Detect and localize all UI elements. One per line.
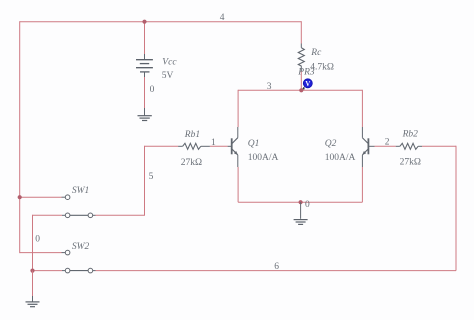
- node 1 label: [211, 138, 216, 148]
- svg-text:0: 0: [150, 85, 155, 95]
- wire emitter rail net 0: [238, 201, 362, 203]
- wire net 6 right rail vertical: [455, 146, 457, 271]
- wire net 5 horizontal to Rb1: [145, 145, 179, 147]
- wire Rb2 right lead to net 6: [418, 145, 456, 147]
- node 6 label: [274, 262, 279, 272]
- node 3 label: [267, 82, 272, 92]
- label 4.7kΩ: [310, 63, 334, 73]
- wire net 4 left rail vertical: [19, 21, 21, 253]
- transistor Q2: [362, 138, 368, 155]
- resistor Rc: [298, 48, 304, 66]
- wire net 4 to SW1 top throw: [20, 196, 66, 198]
- wire net 5 vertical: [144, 146, 146, 216]
- wire battery negative to ground, net 0: [144, 72, 146, 116]
- svg-text:5: 5: [149, 172, 154, 182]
- svg-text:SW1: SW1: [72, 186, 89, 196]
- label SW1: [72, 186, 89, 196]
- wire Q2 collector vertical: [361, 90, 363, 138]
- ground (center): [294, 220, 308, 225]
- wire ground stub (center): [300, 202, 302, 219]
- svg-text:3: 3: [267, 82, 272, 92]
- svg-text:100A/A: 100A/A: [248, 153, 279, 163]
- wire battery top lead: [144, 22, 146, 60]
- wire Rc bottom lead: [300, 66, 302, 91]
- ground (left): [26, 302, 40, 307]
- switch SW2: [65, 250, 92, 273]
- label 100A/A (Q2): [325, 153, 356, 163]
- wire SW2 bottom throw to ground rail: [33, 270, 66, 272]
- label SW2: [72, 242, 90, 252]
- wire net 4 top horizontal: [20, 21, 302, 23]
- wire net 6 bottom horizontal: [93, 270, 456, 272]
- node 0 label (battery): [150, 85, 155, 95]
- svg-text:V: V: [305, 81, 310, 88]
- switch SW1: [65, 195, 92, 218]
- wire Q2 emitter vertical: [361, 155, 363, 202]
- label Rb1: [184, 130, 200, 140]
- svg-text:27kΩ: 27kΩ: [181, 158, 202, 168]
- junction ground rail at SW2: [30, 269, 34, 273]
- svg-text:2: 2: [385, 138, 390, 148]
- wire net 2 Q2 base to Rb2: [369, 145, 400, 147]
- ground (battery): [138, 116, 152, 121]
- label PR3: [297, 68, 315, 78]
- wire Q1 emitter vertical: [237, 155, 239, 202]
- node 0 label (switch rail): [35, 234, 40, 244]
- svg-text:4: 4: [220, 13, 225, 23]
- svg-text:0: 0: [305, 200, 310, 210]
- svg-text:1: 1: [211, 138, 216, 148]
- node 4 label: [220, 13, 225, 23]
- junction emitter rail to ground: [299, 200, 303, 204]
- wire SW1 pole to net 5: [93, 214, 145, 216]
- svg-text:Vcc: Vcc: [162, 58, 177, 68]
- svg-text:100A/A: 100A/A: [325, 153, 356, 163]
- svg-text:PR3: PR3: [297, 68, 315, 78]
- label 5V: [162, 71, 174, 81]
- svg-text:Q1: Q1: [248, 139, 260, 149]
- label Vcc: [162, 58, 177, 68]
- node 0 label (center): [305, 200, 310, 210]
- transistor Q1: [232, 138, 238, 155]
- node 2 label: [385, 138, 390, 148]
- wire net 3 horizontal: [238, 89, 362, 91]
- wire net 1 Rb1 to Q1 base: [201, 145, 231, 147]
- wire net 4 to SW2 top throw: [20, 252, 66, 254]
- probe PR3: [302, 79, 312, 90]
- junction battery tap on net 4: [142, 20, 146, 24]
- wire ground rail stub (left): [32, 271, 34, 302]
- svg-text:Rb2: Rb2: [402, 130, 419, 140]
- label Q1: [248, 139, 260, 149]
- svg-text:0: 0: [35, 234, 40, 244]
- wire Rc top lead: [300, 21, 302, 48]
- label Q2: [325, 139, 337, 149]
- svg-text:Rb1: Rb1: [184, 130, 200, 140]
- junction Rc to net 3: [299, 88, 303, 92]
- label 27kΩ (Rb2): [400, 158, 421, 168]
- label Rc: [310, 48, 322, 58]
- resistor Rb1: [183, 143, 201, 149]
- junction left rail to SW1: [18, 195, 22, 199]
- battery Vcc: [136, 60, 153, 72]
- svg-text:27kΩ: 27kΩ: [400, 158, 421, 168]
- svg-text:Q2: Q2: [325, 139, 337, 149]
- resistor Rb2: [400, 143, 418, 149]
- svg-text:6: 6: [274, 262, 279, 272]
- node 5 label: [149, 172, 154, 182]
- wire SW1 bottom throw to ground rail: [33, 215, 66, 271]
- wire Q1 collector vertical: [237, 90, 239, 138]
- svg-text:Rc: Rc: [310, 48, 322, 58]
- wire Rb1 left lead: [178, 145, 183, 147]
- label 27kΩ (Rb1): [181, 158, 202, 168]
- label Rb2: [402, 130, 419, 140]
- label 100A/A (Q1): [248, 153, 279, 163]
- svg-text:SW2: SW2: [72, 242, 90, 252]
- svg-text:5V: 5V: [162, 71, 174, 81]
